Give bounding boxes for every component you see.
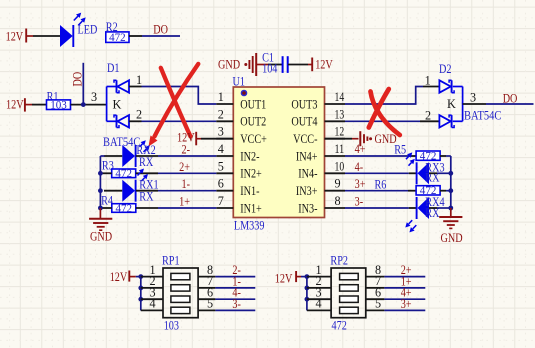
- svg-text:13: 13: [335, 107, 345, 121]
- wire D2 pin3 to DO: [486, 103, 534, 105]
- RP2 input bus: [305, 274, 310, 310]
- RP2 right pins 8-5: [366, 263, 385, 311]
- svg-text:BAT54C: BAT54C: [464, 109, 501, 123]
- wire D1 pin1 to U1 pin1: [142, 87, 217, 105]
- RP2 value 472: [332, 318, 347, 332]
- wire 12V to R1: [32, 104, 47, 106]
- svg-text:472: 472: [115, 166, 132, 180]
- svg-text:R6: R6: [375, 178, 387, 192]
- wire RX3 to bus: [429, 172, 451, 174]
- power port 12V (right of C1): [308, 58, 333, 72]
- wire R4 to U1 pin7: [136, 207, 217, 209]
- label LED: [78, 23, 98, 37]
- wire bus to RX2: [104, 155, 122, 157]
- net label DO (top): [153, 23, 168, 37]
- svg-text:GND: GND: [441, 231, 463, 245]
- IC U1 designator: [233, 74, 246, 88]
- label RX1: [139, 178, 158, 204]
- svg-text:OUT1: OUT1: [240, 97, 266, 111]
- svg-text:RP1: RP1: [162, 254, 180, 268]
- svg-text:3-: 3-: [355, 195, 364, 209]
- svg-text:10: 10: [335, 159, 345, 173]
- resistor R2 472: [106, 30, 129, 44]
- resistor R2 designator: [106, 20, 118, 34]
- resistor R5 472: [416, 149, 440, 163]
- U1 left pins 1-7: [216, 90, 233, 208]
- svg-text:1-: 1-: [182, 177, 191, 191]
- svg-text:11: 11: [335, 142, 345, 156]
- pin 2 D1: [129, 108, 142, 122]
- svg-text:5: 5: [375, 297, 381, 311]
- wire RX2 to U1 pin4: [136, 155, 216, 157]
- svg-text:IN1+: IN1+: [240, 201, 262, 215]
- resistor R3 designator: [102, 159, 114, 173]
- net label 2+: [179, 160, 190, 174]
- svg-text:5: 5: [218, 159, 224, 173]
- resistor R3 472: [112, 166, 136, 180]
- svg-text:DO: DO: [71, 72, 85, 87]
- svg-text:D1: D1: [107, 61, 120, 75]
- diode D1 BAT54C common-cathode: [107, 80, 129, 127]
- label RX3: [425, 160, 444, 184]
- ground GND (right): [439, 208, 462, 245]
- svg-text:IN1-: IN1-: [240, 184, 259, 198]
- wire bus to RX1: [104, 190, 122, 192]
- svg-text:DO: DO: [153, 23, 168, 37]
- svg-text:LED: LED: [78, 23, 98, 37]
- label K common cathode D2: [447, 97, 456, 111]
- LED D3 symbol with emission arrows: [60, 13, 86, 47]
- LED RX4: [405, 197, 429, 232]
- svg-text:OUT3: OUT3: [291, 97, 317, 111]
- resistor R6 472: [416, 183, 440, 197]
- wire U1 pin13 to D2 pin2: [345, 120, 420, 122]
- svg-text:3: 3: [470, 90, 476, 104]
- svg-text:2-: 2-: [182, 143, 191, 157]
- svg-text:VCC+: VCC+: [240, 132, 267, 146]
- svg-text:1: 1: [425, 74, 431, 88]
- svg-text:D2: D2: [439, 62, 452, 76]
- resistor R1 designator: [47, 89, 59, 103]
- svg-text:104: 104: [262, 62, 277, 76]
- svg-text:IN2+: IN2+: [240, 167, 262, 181]
- resistor R4 472: [112, 201, 136, 215]
- RP1 input bus: [138, 274, 143, 310]
- svg-text:RX: RX: [139, 155, 153, 169]
- svg-text:12V: 12V: [110, 270, 128, 284]
- wire U1 pin14 to D2 pin1: [345, 87, 423, 105]
- wire C1 to 12V: [288, 64, 308, 66]
- red cross-out X (left): [149, 64, 199, 147]
- wire U1 pin10 to RX3: [345, 172, 417, 174]
- net label 1+: [179, 195, 190, 209]
- power port 12V (row 2): [6, 98, 32, 112]
- LED RX1: [122, 169, 148, 202]
- svg-text:8: 8: [334, 194, 340, 208]
- svg-text:12: 12: [335, 125, 345, 139]
- ground GND (left): [89, 208, 112, 243]
- wire DO stub vertical: [82, 63, 84, 105]
- svg-text:7: 7: [218, 194, 224, 208]
- svg-text:LM339: LM339: [234, 218, 265, 232]
- svg-text:VCC-: VCC-: [293, 132, 317, 146]
- svg-text:1+: 1+: [179, 195, 190, 209]
- wire U1 pin11 to R5: [345, 155, 416, 157]
- svg-text:1: 1: [218, 90, 224, 104]
- LED RX3: [406, 152, 429, 184]
- resistor pack RP2 body 472: [331, 268, 366, 318]
- IC U1 value LM339: [234, 218, 265, 232]
- svg-text:14: 14: [335, 90, 345, 104]
- svg-text:3-: 3-: [232, 297, 241, 311]
- wire 12V to LED anode: [33, 35, 60, 37]
- net label DO (right): [503, 92, 518, 106]
- power ground GND (left of C1): [218, 53, 268, 76]
- label RX4: [425, 195, 444, 220]
- svg-text:472: 472: [332, 318, 347, 332]
- svg-text:4: 4: [315, 297, 321, 311]
- svg-text:12V: 12V: [6, 29, 24, 43]
- resistor pack RP1 body 103: [163, 268, 198, 318]
- value BAT54C (D1): [103, 135, 140, 149]
- IC U1 LM339 body: [233, 87, 324, 218]
- svg-text:GND: GND: [218, 58, 240, 72]
- resistor R5 designator: [394, 142, 406, 156]
- diode D2 BAT54C common-cathode: [439, 80, 462, 127]
- RP2 left pins 1-4: [307, 263, 331, 311]
- wire 12V to U1 pin3: [201, 138, 233, 140]
- svg-text:OUT4: OUT4: [291, 115, 317, 129]
- capacitor C1 104: [262, 51, 288, 76]
- U1 right pins 14-8: [325, 90, 346, 208]
- svg-text:DO: DO: [503, 92, 518, 106]
- RP1 right pins 8-5: [198, 263, 215, 311]
- pin 1 D1: [129, 73, 142, 87]
- svg-text:5: 5: [207, 297, 213, 311]
- svg-text:K: K: [113, 98, 122, 112]
- svg-text:472: 472: [109, 30, 126, 44]
- LED RX2: [122, 140, 150, 167]
- svg-text:472: 472: [116, 201, 133, 215]
- svg-text:103: 103: [164, 319, 179, 333]
- svg-text:IN4+: IN4+: [296, 149, 318, 163]
- svg-text:3: 3: [91, 90, 97, 104]
- wire to DO net: [142, 35, 180, 37]
- svg-text:12V: 12V: [315, 58, 333, 72]
- RP2 net labels 2+ 1+ 4+ 3+: [401, 263, 412, 311]
- net label 1-: [182, 177, 191, 191]
- svg-text:IN3+: IN3+: [296, 184, 318, 198]
- power port 12V (VCC row): [177, 130, 201, 145]
- svg-text:12V: 12V: [275, 272, 293, 286]
- diode D1 designator: [107, 61, 120, 75]
- wire RX4 to bus: [429, 207, 451, 209]
- wire D1 pin2 to U1 pin2: [142, 120, 217, 122]
- pin 2 D2: [420, 108, 439, 122]
- resistor pack RP1 designator: [162, 254, 180, 268]
- svg-text:2: 2: [218, 107, 224, 121]
- power port 12V (top-left): [6, 29, 33, 44]
- wire RX1 to U1 pin6: [136, 190, 216, 192]
- resistor R6 designator: [375, 178, 387, 192]
- svg-text:GND: GND: [90, 229, 112, 243]
- ground GND (pin 12): [325, 131, 397, 146]
- wire U1 pin8 to RX4: [345, 207, 417, 209]
- svg-text:R5: R5: [394, 142, 406, 156]
- svg-text:4: 4: [149, 297, 155, 311]
- net label 4+: [355, 142, 366, 156]
- resistor R4 designator: [101, 193, 113, 207]
- RP1 net labels 2- 1- 4- 3-: [232, 263, 241, 311]
- wire R6 to bus: [440, 190, 451, 192]
- svg-text:3+: 3+: [401, 297, 412, 311]
- net label 4-: [355, 160, 364, 174]
- svg-text:2: 2: [425, 108, 431, 122]
- diode D2 designator: [439, 62, 452, 76]
- svg-text:12V: 12V: [6, 98, 24, 112]
- label K common cathode D1: [113, 98, 122, 112]
- wire R5 to bus: [440, 155, 451, 157]
- svg-text:2+: 2+: [179, 160, 190, 174]
- RP1 value 103: [164, 319, 179, 333]
- net label DO (vertical): [71, 72, 85, 87]
- net label 2-: [182, 143, 191, 157]
- svg-text:103: 103: [50, 98, 67, 112]
- svg-text:IN4-: IN4-: [298, 167, 317, 181]
- svg-text:2: 2: [136, 108, 142, 122]
- svg-text:4+: 4+: [355, 142, 366, 156]
- left GND bus: [98, 156, 112, 210]
- svg-text:4: 4: [218, 142, 224, 156]
- wire R1 to D1 pin 3: [71, 90, 107, 105]
- svg-text:6: 6: [218, 177, 224, 191]
- RP1 output wires: [215, 277, 255, 311]
- RP1 left pins 1-4: [141, 263, 163, 311]
- resistor pack RP2 designator: [330, 253, 348, 267]
- right GND bus: [448, 156, 453, 210]
- svg-text:9: 9: [334, 177, 340, 191]
- label RX2: [136, 143, 155, 169]
- red cross-out X (right): [369, 89, 400, 135]
- resistor R1 103: [47, 98, 71, 112]
- pin 1 D2: [423, 74, 439, 88]
- net label 3+: [355, 177, 366, 191]
- svg-text:K: K: [447, 97, 456, 111]
- wire 12V to RP1 bus: [136, 276, 141, 278]
- svg-text:IN2-: IN2-: [240, 149, 259, 163]
- wire 12V to RP2 bus: [301, 276, 307, 278]
- wire R3 to U1 pin5: [136, 172, 217, 174]
- svg-text:4-: 4-: [355, 160, 364, 174]
- RP2 output wires: [384, 277, 425, 311]
- svg-text:IN3-: IN3-: [298, 201, 317, 215]
- svg-text:1: 1: [136, 73, 142, 87]
- svg-text:3: 3: [218, 125, 224, 139]
- svg-text:RP2: RP2: [330, 253, 348, 267]
- pin R2 right: [129, 35, 142, 37]
- net label 3-: [355, 195, 364, 209]
- wire U1 pin9 to R6: [345, 190, 416, 192]
- svg-text:OUT2: OUT2: [240, 115, 266, 129]
- wire GND to C1: [268, 64, 282, 66]
- power port 12V (RP2): [275, 271, 301, 286]
- power port 12V (RP1): [110, 270, 136, 284]
- junction node DO: [81, 102, 86, 107]
- svg-text:3+: 3+: [355, 177, 366, 191]
- pin 3 D2: [463, 90, 486, 104]
- value BAT54C (D2): [464, 109, 501, 123]
